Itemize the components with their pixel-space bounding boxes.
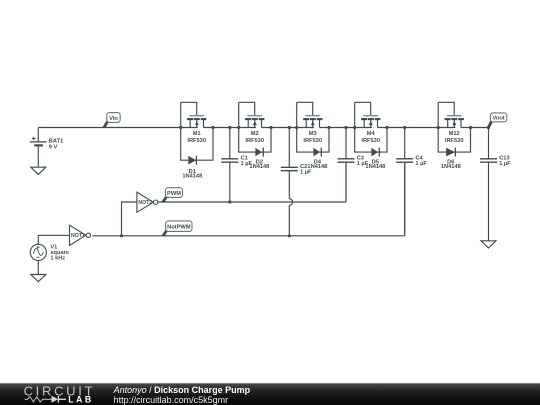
- wire: C4 top lead: [404, 128, 406, 159]
- svg-text:1 µF: 1 µF: [300, 170, 312, 176]
- wire: M1/D1 parallel loop: [181, 102, 213, 160]
- node: rail junctions at M2: [237, 126, 240, 129]
- node: C2 rail junction: [288, 126, 291, 129]
- node: NOT1 output branch junction: [120, 234, 123, 237]
- svg-text:Vin: Vin: [109, 116, 118, 122]
- wire: C2 top lead: [288, 128, 290, 168]
- wire: C1 top lead: [229, 128, 231, 159]
- diode D6 (1N4148): [441, 148, 461, 171]
- svg-text:IRF530: IRF530: [303, 138, 322, 144]
- node: C1 rail junction: [228, 126, 231, 129]
- node: rail junctions at M3: [295, 126, 298, 129]
- wire: V1 to ground: [37, 261, 39, 275]
- svg-text:BAT1: BAT1: [49, 138, 63, 144]
- svg-text:IRF530: IRF530: [187, 138, 206, 144]
- svg-text:1 µF: 1 µF: [241, 161, 253, 167]
- net flag Vout: [487, 113, 507, 128]
- node: C1/PWM junction: [228, 200, 231, 203]
- wire: C2 bottom lead with hop over PWM wire: [288, 171, 290, 199]
- capacitor C4 (1 uF): [396, 156, 427, 168]
- node: C3 rail junction: [344, 126, 347, 129]
- wire: C13 bottom lead: [488, 162, 490, 241]
- transistor M2 (IRF530 NMOS, gate tied to source): [239, 102, 265, 144]
- net flag PWM: [161, 188, 182, 203]
- svg-text:Vout: Vout: [492, 116, 504, 122]
- CircuitLab logo: [24, 383, 96, 404]
- voltage source V1 (square, 1 kHz): [30, 244, 69, 261]
- diode D1 (1N4148): [182, 156, 202, 180]
- transistor M12 (IRF530 NMOS, gate tied to source): [438, 102, 464, 144]
- node: rail junctions at M1: [179, 126, 182, 129]
- wire: M12/D6 parallel loop: [438, 102, 470, 152]
- transistor M1 (IRF530 NMOS, gate tied to source): [181, 102, 207, 144]
- wire: M3/D4 parallel loop: [297, 102, 329, 152]
- svg-text:Antonyo / Dickson Charge Pump: Antonyo / Dickson Charge Pump: [113, 385, 251, 395]
- ground (V1): [31, 275, 46, 282]
- transistor M3 (IRF530 NMOS, gate tied to source): [297, 102, 323, 144]
- ground (battery): [31, 167, 46, 174]
- svg-text:IRF530: IRF530: [361, 138, 380, 144]
- svg-text:NOT1: NOT1: [71, 233, 85, 239]
- node: rail junctions at M12: [437, 126, 440, 129]
- wire: C1 bottom lead: [229, 162, 231, 202]
- wire: M2/D2 parallel loop: [239, 102, 271, 152]
- ground (C13 output): [481, 241, 496, 248]
- capacitor C2 (1 uF): [281, 164, 312, 176]
- svg-text:1 kHz: 1 kHz: [50, 256, 65, 262]
- svg-text:1N4148: 1N4148: [182, 174, 202, 180]
- transistor M4 (IRF530 NMOS, gate tied to source): [355, 102, 381, 144]
- capacitor C13 (1 uF): [480, 156, 511, 168]
- node: C13 rail junction: [487, 126, 490, 129]
- capacitor C3 (1 uF): [338, 156, 369, 168]
- wire: branch up to NOT2 input: [122, 202, 137, 236]
- inverter NOT2: [137, 192, 158, 212]
- node: C4 rail junction: [403, 126, 406, 129]
- svg-text:1N4148: 1N4148: [365, 164, 385, 170]
- net flag NotPWM: [162, 221, 193, 237]
- svg-text:1 µF: 1 µF: [499, 161, 511, 167]
- capacitor C1 (1 uF): [221, 156, 252, 168]
- svg-text:M12: M12: [449, 131, 460, 137]
- svg-text:M2: M2: [251, 131, 259, 137]
- svg-text:1N4148: 1N4148: [249, 164, 269, 170]
- svg-text:1 µF: 1 µF: [415, 161, 427, 167]
- inverter NOT1: [70, 225, 91, 245]
- battery BAT1: [30, 128, 63, 168]
- wire: C4 bottom lead: [404, 162, 406, 236]
- svg-text:M3: M3: [309, 131, 317, 137]
- wire: NotPWM net (NOT1 output to C4): [93, 162, 405, 236]
- node: C2/NotPWM junction: [288, 234, 291, 237]
- wire: M4/D5 parallel loop: [355, 102, 387, 152]
- svg-text:9 V: 9 V: [49, 145, 58, 151]
- svg-text:1 µF: 1 µF: [357, 161, 369, 167]
- svg-text:M4: M4: [367, 131, 376, 137]
- svg-text:http://circuitlab.com/c5k5gmr: http://circuitlab.com/c5k5gmr: [114, 395, 229, 405]
- svg-text:PWM: PWM: [167, 191, 181, 197]
- node: rail junctions at M4: [353, 126, 356, 129]
- diode D4 (1N4148): [307, 148, 327, 171]
- node: Vout/C13 junction: [487, 126, 490, 129]
- diode D5 (1N4148): [365, 148, 385, 171]
- wire: PWM net (NOT2 output to C3): [158, 162, 346, 202]
- wire: main Vin rail: [38, 127, 488, 129]
- svg-text:1N4148: 1N4148: [441, 164, 461, 170]
- svg-text:IRF530: IRF530: [245, 138, 264, 144]
- svg-text:NOT2: NOT2: [138, 200, 152, 206]
- wire: V1 to NOT1 input: [38, 235, 69, 244]
- net flag Vin: [102, 113, 120, 128]
- wire: C3 bottom lead: [345, 162, 347, 202]
- svg-text:NotPWM: NotPWM: [167, 225, 191, 231]
- diode D2 (1N4148): [249, 148, 269, 171]
- wire: C13 top lead: [488, 128, 490, 159]
- svg-text:M1: M1: [193, 131, 201, 137]
- svg-text:LAB: LAB: [68, 395, 94, 405]
- wire: C3 top lead: [345, 128, 347, 159]
- svg-text:IRF530: IRF530: [445, 138, 464, 144]
